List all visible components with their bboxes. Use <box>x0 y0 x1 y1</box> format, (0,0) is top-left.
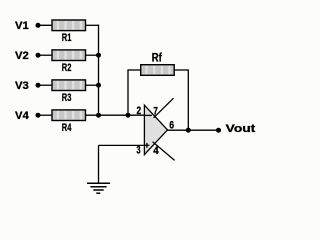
op-amp non-inverting input plus mark <box>145 144 150 146</box>
wire V3 to R3 <box>38 84 53 86</box>
resistor R1 <box>52 20 86 31</box>
svg-text:R1: R1 <box>62 32 72 44</box>
wire V1 to R1 <box>38 24 53 26</box>
svg-text:6: 6 <box>169 119 174 131</box>
junction dot feedback tap <box>126 113 131 118</box>
svg-text:V3: V3 <box>15 80 29 92</box>
svg-text:Rf: Rf <box>152 53 162 65</box>
pin 4 power stub <box>153 142 175 161</box>
wire feedback vertical up <box>127 70 129 115</box>
junction dot bus/V3 <box>96 83 101 88</box>
op-amp U1 triangle <box>144 105 167 154</box>
svg-text:Vout: Vout <box>226 123 256 135</box>
wire Rf output vertical down <box>187 70 189 130</box>
node V3 terminal dot <box>36 83 41 88</box>
junction dot output/feedback <box>186 128 191 133</box>
svg-text:V2: V2 <box>15 50 29 62</box>
svg-text:2: 2 <box>137 105 142 117</box>
pin 7 power stub <box>154 98 174 118</box>
resistor Rf <box>141 65 175 76</box>
wire V4 to R4 <box>38 114 53 116</box>
svg-text:7: 7 <box>153 106 158 118</box>
wire output <box>168 129 219 131</box>
resistor R2 <box>52 50 86 61</box>
svg-text:R3: R3 <box>62 92 72 104</box>
node Vout terminal dot <box>216 128 221 133</box>
wire Rf to output node horizontal <box>174 69 189 71</box>
node V2 terminal dot <box>36 53 41 58</box>
svg-text:R4: R4 <box>62 122 72 134</box>
op-amp inverting input minus mark <box>145 114 152 116</box>
resistor R3 <box>52 80 86 91</box>
wire ground vertical <box>98 145 100 183</box>
svg-text:4: 4 <box>153 145 159 157</box>
resistor R4 <box>52 110 86 121</box>
wire R1 to bus <box>86 24 100 26</box>
wire summing bus vertical <box>98 25 100 116</box>
junction dot bus/V2 <box>96 53 101 58</box>
svg-text:V4: V4 <box>15 110 30 122</box>
node V4 terminal dot <box>36 113 41 118</box>
svg-text:R2: R2 <box>62 62 72 74</box>
wire R4 to summing node <box>86 114 145 116</box>
wire feedback to Rf <box>127 69 141 71</box>
wire R3 to bus <box>86 84 99 86</box>
svg-text:3: 3 <box>136 145 140 157</box>
wire V2 to R2 <box>38 54 53 56</box>
node V1 terminal dot <box>36 23 41 28</box>
junction dot bus/V4 <box>96 113 101 118</box>
svg-text:V1: V1 <box>15 20 29 32</box>
wire R2 to bus <box>86 54 99 56</box>
wire pin3 to ground horizontal <box>99 144 145 146</box>
ground <box>87 183 110 193</box>
